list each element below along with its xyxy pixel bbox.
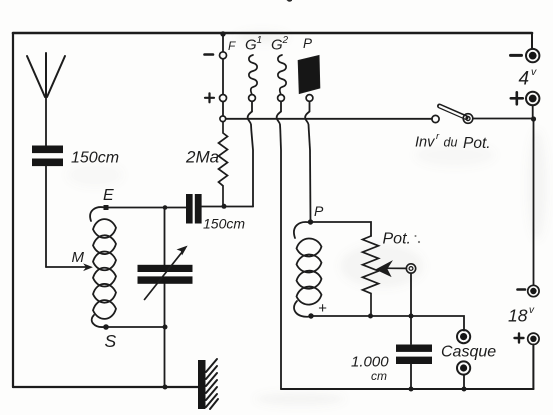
wire top border to 4V minus <box>531 33 533 49</box>
arrowhead tap M <box>84 264 92 270</box>
svg-text:F: F <box>228 39 236 53</box>
terminal F plus <box>220 95 227 102</box>
wire antenna lead lower <box>45 166 47 267</box>
node S <box>103 324 109 330</box>
svg-text:G: G <box>271 37 283 54</box>
svg-text:E: E <box>103 187 114 204</box>
svg-text:4: 4 <box>519 69 530 90</box>
wire C3 bottom <box>410 364 412 389</box>
ground electrode <box>198 360 206 409</box>
wire F from top border <box>222 34 224 52</box>
svg-text:G: G <box>245 37 257 54</box>
wire F plus to line <box>222 102 224 117</box>
wire S to CV bottom <box>106 326 165 328</box>
wire casque bottom to rail <box>463 375 465 389</box>
svg-text:1.000: 1.000 <box>351 354 389 371</box>
grid G1 squiggle <box>249 55 257 95</box>
terminal 18V plus <box>528 333 539 344</box>
svg-text:v: v <box>531 66 537 78</box>
node junction S/CV <box>163 325 168 330</box>
label Inv du Pot <box>415 131 491 152</box>
wire P down to coil <box>305 101 310 222</box>
arrow of variable capacitor <box>145 249 185 300</box>
terminal wiper <box>406 264 415 273</box>
wire antenna lead <box>45 97 47 146</box>
wire tap M horizontal <box>46 266 87 268</box>
terminal casque bottom <box>457 361 470 374</box>
capacitor C3 1.000cm <box>396 345 432 365</box>
label plus (F) <box>205 93 214 102</box>
svg-text:du: du <box>444 136 458 150</box>
wire bottom-left (ground rail) <box>13 386 198 388</box>
terminal small circle on filament line <box>220 116 226 122</box>
wire F minus to plus <box>222 59 224 95</box>
wire E to grid cap <box>106 207 186 209</box>
node right corner <box>531 116 536 121</box>
node P coil top <box>308 219 313 224</box>
wire CV branch down <box>164 208 166 266</box>
variable capacitor CV <box>138 265 193 284</box>
label plus (4V) <box>511 92 523 104</box>
wire top border <box>13 32 532 35</box>
terminal 4V plus <box>526 92 539 105</box>
wire pot output line <box>311 316 464 331</box>
node pot bottom <box>368 314 373 319</box>
wire P node to pot top <box>311 222 372 236</box>
resistor R1 2M grid leak <box>219 122 228 206</box>
wire 18V plus to bottom right corner <box>532 345 534 390</box>
wire bottom right rail <box>281 388 534 390</box>
svg-text:Inv: Inv <box>415 135 435 151</box>
inductor L1 (tuning coil E/M/S) <box>90 207 116 327</box>
label plus (18V) <box>515 334 524 343</box>
svg-text:P: P <box>303 36 312 51</box>
terminal G2 <box>278 95 285 102</box>
terminal 18V minus <box>528 285 539 296</box>
svg-text:2Ma: 2Ma <box>185 148 219 167</box>
wire grid cap to node <box>202 206 253 208</box>
svg-text:+: + <box>318 300 327 317</box>
wire right vertical to 18V <box>533 119 535 285</box>
capacitor C2 grid 150cm <box>186 194 202 224</box>
svg-text:Pot.: Pot. <box>383 231 411 248</box>
wiper arrow <box>380 267 407 269</box>
svg-text:18: 18 <box>508 306 528 326</box>
svg-text:cm: cm <box>371 369 387 383</box>
capacitor C1 antenna 150cm <box>32 146 63 167</box>
wire wiper down <box>410 273 412 344</box>
switch Inv du Pot <box>432 115 439 122</box>
node coil bottom <box>308 313 313 318</box>
terminal F minus <box>220 52 227 59</box>
svg-text:Casque: Casque <box>441 344 496 361</box>
node wiper/pot-line junction <box>409 314 414 319</box>
node junction E/CV <box>163 205 168 210</box>
node casque bottom rail <box>462 387 467 392</box>
svg-text:Pot.: Pot. <box>463 135 491 152</box>
svg-text:1: 1 <box>257 35 263 46</box>
wire switch to right corner <box>473 118 534 120</box>
svg-text:2: 2 <box>282 35 289 46</box>
svg-text:P: P <box>314 203 324 219</box>
terminal G1 <box>249 95 256 102</box>
svg-text:150cm: 150cm <box>203 216 245 232</box>
node junction bottom rail <box>163 385 168 390</box>
node C3 bottom <box>409 387 414 392</box>
grid G2 squiggle <box>278 55 286 95</box>
wire G1 down to grid node <box>248 101 253 206</box>
plate P (anode) <box>298 56 320 94</box>
wire filament line <box>226 118 432 120</box>
top caption remnant <box>287 0 293 2</box>
node grid junction <box>222 204 227 209</box>
label minus (4V) <box>511 54 522 57</box>
wire 4V plus to line <box>532 105 534 119</box>
label minus (F) <box>205 53 214 56</box>
wire CV bottom to ground rail <box>164 284 166 387</box>
node E <box>104 205 109 210</box>
wire left border <box>12 33 14 387</box>
terminal 4V minus <box>526 49 539 62</box>
wire G2 down to bottom rail <box>277 101 281 389</box>
label minus (18V) <box>518 288 526 291</box>
potentiometer Pot zigzag <box>363 236 379 316</box>
antenna <box>27 53 65 97</box>
svg-text:S: S <box>105 331 117 351</box>
svg-text:150cm: 150cm <box>71 150 119 167</box>
node F top border <box>220 31 225 36</box>
ground hatching <box>206 359 218 409</box>
svg-text:M: M <box>72 249 85 266</box>
terminal casque top <box>457 330 470 343</box>
inductor L2 (coil P) <box>294 222 322 317</box>
terminal P <box>306 95 313 102</box>
